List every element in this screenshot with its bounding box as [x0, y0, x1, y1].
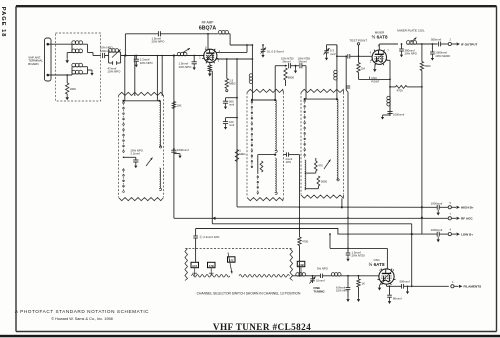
label 500mmf filament: [400, 280, 410, 284]
capacitor 56mmf A: [289, 63, 299, 68]
svg-text:470: 470: [318, 164, 323, 168]
svg-text:20% NPO: 20% NPO: [152, 40, 166, 44]
label 1000mmf: [177, 148, 189, 152]
svg-text:MIXER PLATE COIL: MIXER PLATE COIL: [397, 29, 425, 33]
capacitor 500mmf IF coupling: [439, 42, 449, 47]
capacitor 56mmf B: [300, 63, 306, 68]
decoupling coil and 1000mmf below mixer: [381, 96, 393, 119]
wire wafer3 coil top riser to grid: [327, 45, 338, 99]
svg-text:4700: 4700: [302, 240, 309, 244]
resistor 1.5 MEG screen bleeder: [225, 58, 228, 92]
label 1000mmf HIGH B+: [431, 201, 443, 205]
svg-text:10%: 10%: [286, 160, 292, 164]
neutralizing coil above V1: [218, 30, 252, 45]
capacitor 390mmf 10% NPO: [399, 43, 404, 57]
label 3-5 mmf: [330, 49, 336, 56]
variable arrow wafer1: [146, 158, 153, 167]
label 1 MEG: [239, 149, 245, 156]
cathode resistor V1 with ground: [208, 62, 212, 77]
label 10K: [177, 104, 182, 108]
label 1.5mmf 20% N750: [352, 250, 366, 257]
wafer1 lower contacts: [123, 168, 162, 192]
label 5600: [321, 180, 327, 184]
osc cathode to filament line: [386, 284, 388, 286]
feedthrough capacitor 560mmf: [223, 97, 238, 109]
feedthrough capacitor 100mmf: [223, 117, 238, 130]
wire antenna top terminal to balun: [48, 43, 72, 45]
capacitor 1000mmf 10% N2200: [430, 43, 435, 61]
svg-text:mmf: mmf: [229, 123, 234, 127]
wire riser to 1.5mmf coupling line: [125, 34, 158, 56]
pin numbers V2A: [370, 44, 390, 63]
ground antenna balun top: [65, 53, 72, 64]
label 6BQ7A: [199, 25, 217, 31]
antenna coil dashed box: [56, 33, 101, 101]
resistor 5600 inside wafer3: [305, 176, 320, 189]
svg-text:IF OUTPUT: IF OUTPUT: [461, 42, 477, 46]
label 100mmf: [229, 120, 234, 127]
capacitor mixer grid series: [348, 54, 372, 58]
wire coupling caps line: [275, 65, 287, 67]
label 4700 fine tuning: [302, 240, 309, 244]
svg-text:1000mmf: 1000mmf: [431, 228, 443, 232]
resistor 1 MEG AGC decoupling: [235, 150, 238, 162]
FILAMENTS terminal: [451, 281, 481, 289]
wire HIGH B+ bus: [237, 206, 437, 208]
wire RF AGC bus: [174, 217, 448, 219]
wire mixer heater to junction: [386, 60, 390, 116]
wafer1 right coil ladder: [160, 101, 162, 148]
node junction to coupling cap line: [124, 54, 126, 56]
wire into selector from C cap: [195, 249, 197, 263]
svg-text:1000mmf: 1000mmf: [393, 113, 404, 117]
svg-text:GL 0.5-3mmf: GL 0.5-3mmf: [267, 49, 284, 53]
wire V1 pin3 line: [216, 58, 253, 60]
label 1.5 MEG: [229, 78, 235, 85]
label 5600: [424, 64, 431, 68]
balun coil L1 bottom pair: [72, 63, 88, 74]
junction arrow heater bus crossing: [212, 217, 215, 220]
svg-text:56mmf: 56mmf: [283, 60, 291, 64]
wire balun output: [88, 53, 102, 56]
wafer2 link wire: [258, 154, 277, 174]
capacitor 1000mmf AGC bypass: [171, 148, 181, 158]
label resistor value: [70, 87, 77, 91]
trap L2 C2 parallel circuit: [108, 49, 120, 65]
svg-text:© Howard W. Sams & Co., Inc. 1: © Howard W. Sams & Co., Inc. 1958: [51, 317, 112, 321]
capacitor 80mmf osc cathode: [387, 285, 392, 304]
node plate B plus: [421, 43, 423, 45]
wafer1 input drop wires: [124, 55, 163, 101]
svg-text:1000mmf: 1000mmf: [177, 148, 189, 152]
label 2mmf 10%: [286, 157, 293, 164]
label 4700: [397, 89, 404, 93]
svg-text:TUNING: TUNING: [314, 289, 326, 293]
svg-text:1000mmf: 1000mmf: [431, 201, 443, 205]
label 10% N750 56mmf A: [281, 56, 294, 63]
mixer cathode ground: [373, 63, 376, 72]
svg-text:10mmf: 10mmf: [316, 279, 325, 283]
wafer1 bottom link wire: [123, 157, 136, 159]
RF AGC terminal: [448, 213, 473, 221]
label C1 120mmf 10% NPO: [100, 46, 114, 53]
svg-text:A7B: A7B: [209, 264, 214, 268]
pin numbers V1: [199, 47, 220, 68]
svg-text:2.2mmf: 2.2mmf: [131, 152, 141, 156]
resistor inside wafer2: [260, 161, 263, 172]
wafer3 lower coil beads: [305, 160, 306, 190]
label 6800: [288, 76, 295, 80]
svg-text:A7A: A7A: [192, 264, 197, 268]
balun coil L1 top pair: [72, 41, 88, 53]
svg-text:FILAMENTS: FILAMENTS: [464, 285, 482, 289]
resistor 10K osc grid leak: [357, 275, 360, 302]
svg-text:1M: 1M: [361, 66, 366, 70]
svg-text:6BQ7A: 6BQ7A: [199, 25, 217, 31]
switch segment box A7B: [208, 262, 216, 276]
oscillator coil line in selector: [191, 275, 289, 278]
capacitor 6.8mmf 10% NPO osc grid: [346, 275, 351, 302]
label trap 47mmf 10% NPO: [108, 66, 122, 73]
capacitor 2mmf osc coupling at wafer2: [284, 152, 300, 156]
feedthrough capacitor 1000mmf HIGH B+: [436, 205, 448, 216]
wire wafer2 right ladder riser: [274, 66, 276, 100]
svg-text:mmf: mmf: [229, 103, 234, 107]
capacitor on osc net near wafer3: [346, 86, 350, 88]
wire grid return column with components: [173, 56, 175, 219]
resistor 10K on grid return: [172, 102, 175, 109]
svg-text:5% NPO: 5% NPO: [317, 266, 329, 270]
channel selector left zigzag edge: [185, 249, 188, 281]
capacitor C1 120mmf series: [103, 53, 109, 58]
label OSC half 6AT8: [369, 258, 385, 267]
label MIXER PLATE COIL: [397, 29, 425, 33]
svg-text:5600: 5600: [424, 64, 431, 68]
svg-text:RF AGC: RF AGC: [461, 217, 474, 221]
variable arrow wafer3: [324, 160, 331, 170]
channel selector dashed box: [185, 248, 292, 250]
resistor 6800 interstage: [284, 65, 287, 86]
label 560mmf: [229, 100, 234, 107]
svg-text:½ 6AT8: ½ 6AT8: [369, 261, 385, 267]
title VHF TUNER #CL5824: [213, 322, 311, 332]
wafer3 top bar: [304, 98, 338, 100]
wire osc injection line: [359, 79, 391, 81]
svg-text:80mmf: 80mmf: [393, 296, 402, 300]
wiper arrow channel selector: [228, 253, 233, 274]
wire mixer B plus vertical to HIGH B+: [421, 87, 423, 234]
ground antenna balun bottom: [88, 70, 94, 76]
HIGH B+ terminal: [448, 202, 474, 210]
wire V1 pin2 to plate node: [216, 44, 248, 52]
svg-text:MEG: MEG: [229, 82, 235, 86]
wafer3 right coil ladder: [337, 99, 339, 181]
svg-text:100K: 100K: [70, 87, 77, 91]
wire cathode to heater bus riser: [210, 71, 213, 224]
svg-text:BOARD: BOARD: [28, 62, 38, 66]
svg-text:MEG: MEG: [239, 152, 245, 156]
svg-text:VHF TUNER #CL5824: VHF TUNER #CL5824: [213, 322, 311, 332]
label 2.2mmf 10% NPO: [140, 58, 154, 65]
resistor 4700 osc plate feed: [389, 85, 423, 88]
wire grid line with series capacitor: [336, 45, 346, 57]
svg-text:PAGE 18: PAGE 18: [0, 7, 6, 38]
svg-text:RF AMP: RF AMP: [202, 21, 214, 25]
label 5% NPO 10mmf: [316, 266, 329, 282]
label FINE TUNING: [314, 286, 326, 293]
ground between coupling caps: [294, 65, 297, 73]
pin numbers V2B: [379, 269, 395, 272]
svg-text:500mmf: 500mmf: [400, 280, 410, 284]
label GL 0.5-3mmf: [267, 49, 284, 53]
VHF antenna terminal board: [45, 38, 52, 81]
wafer2 right coil ladder: [275, 100, 277, 152]
label 6.8mmf 10% NPO: [336, 285, 349, 292]
svg-text:1K: 1K: [362, 281, 366, 285]
label 1000mmf: [393, 113, 404, 117]
label 500mmf: [431, 37, 441, 41]
ground osc cathode: [378, 283, 382, 291]
switch segment box A7C: [228, 257, 236, 263]
switch wafer 2 outline: [247, 89, 284, 200]
svg-text:mmf: mmf: [330, 52, 336, 56]
label 390mmf 10% NPO: [405, 48, 418, 55]
wire heater bus to filament drop: [212, 224, 413, 287]
svg-text:10% NPO: 10% NPO: [405, 52, 418, 56]
tube V2A mixer: [371, 50, 388, 66]
footer text PHOTOFACT notation: [15, 309, 149, 321]
tube V2B oscillator: [377, 269, 395, 285]
wire osc plate top: [330, 234, 387, 270]
wire antenna bottom terminal: [48, 74, 72, 75]
resistor antenna static drain: [65, 74, 69, 100]
label RF AMP: [202, 21, 214, 25]
wafer1 left contact ladder: [123, 101, 125, 153]
switch wafer 3 outline: [301, 89, 344, 198]
svg-text:500mmf: 500mmf: [431, 37, 441, 41]
oscillator grid coil: [331, 273, 379, 276]
label CHANNEL SELECTOR SWITCH caption: [197, 292, 301, 296]
plate trimmer GL 0.5-3mmf: [261, 44, 267, 58]
svg-text:10% NPO: 10% NPO: [179, 65, 193, 69]
capacitor C 2.2mmf osc injection: [193, 229, 198, 249]
capacitor 2.2mmf to ground: [134, 55, 139, 68]
B plus feed column wire: [236, 58, 238, 207]
fine tuning coil: [292, 273, 306, 277]
wire wafer3 left ladder riser: [305, 66, 306, 99]
label 1000mmf 10% N2200: [435, 51, 450, 58]
capacitor 10mmf 5% NPO series: [305, 274, 331, 278]
wire mixer plate riser: [379, 44, 398, 50]
wafer2 lower contacts: [257, 158, 277, 196]
svg-text:6800: 6800: [288, 76, 295, 80]
resistor 1M mixer grid: [357, 56, 360, 79]
interstage coil V1 plate to wafer2: [249, 44, 253, 100]
resistor 470 inside wafer3: [305, 158, 318, 173]
label 10% N750 56mmf B: [298, 56, 311, 63]
svg-text:10% N2200: 10% N2200: [435, 54, 450, 58]
label 1M: [361, 66, 366, 70]
ground stub after 500mmf: [406, 286, 409, 295]
trimmer capacitor 3-5mmf mixer grid: [324, 45, 330, 61]
channel selector right zigzag edge: [290, 249, 293, 281]
label MIXER half 6AT8: [372, 30, 388, 39]
page number text PAGE 18 (rotated): [0, 7, 6, 38]
svg-text:TEST POINT: TEST POINT: [349, 38, 367, 42]
capacitor 1.5mmf 20% N750 osc plate: [346, 248, 351, 262]
svg-text:10% NPO: 10% NPO: [140, 61, 154, 65]
label 1.5mmf 20% NPO: [152, 36, 166, 43]
tube V1 RF amplifier 6BQ7A: [202, 49, 218, 63]
svg-text:10% NPO: 10% NPO: [108, 70, 122, 74]
wafer2 top bar: [251, 99, 277, 101]
label C 2.2mmf 10%: [200, 234, 220, 239]
svg-text:½ 6AT8: ½ 6AT8: [372, 34, 388, 40]
TEST POINT terminal: [349, 38, 367, 57]
label 80mmf: [393, 296, 402, 300]
label OSC POINT: [370, 76, 380, 83]
resistor 5600 plate load: [420, 44, 423, 87]
RF grid tuning coil with arrow: [173, 48, 205, 56]
capacitor 2.2mmf 20% NPO in wafer1: [133, 157, 138, 168]
capacitor 1.5mmf 20% NPO coupling: [158, 31, 218, 36]
svg-text:4700: 4700: [397, 89, 404, 93]
svg-text:5600: 5600: [321, 180, 327, 184]
IF OUTPUT terminal: [448, 39, 477, 47]
label VHF ANT. TERMINAL BOARD: [28, 55, 43, 66]
capacitor 1.5mmf 10% NPO grid: [192, 55, 197, 70]
svg-text:A PHOTOFACT STANDARD NOTATION: A PHOTOFACT STANDARD NOTATION SCHEMATIC: [15, 309, 149, 314]
wire main antenna line to RF grid: [121, 55, 195, 57]
svg-text:56mmf: 56mmf: [299, 60, 307, 64]
mixer plate coil with arrow: [406, 38, 437, 45]
switch segment box A7A: [191, 262, 199, 276]
feedthrough capacitor 1000mmf LOW B+: [436, 232, 448, 243]
svg-text:HIGH B+: HIGH B+: [461, 206, 474, 210]
wire wafer3 bottom to HIGH B+ bus: [341, 199, 343, 209]
variable arrow trap: [112, 50, 121, 58]
svg-text:CHANNEL SELECTOR SWITCH SHOWN: CHANNEL SELECTOR SWITCH SHOWN IN CHANNEL…: [197, 292, 301, 296]
switch wafer 1 outline: [119, 92, 164, 200]
capacitor 500mmf filament: [387, 284, 449, 289]
svg-text:10% NPO: 10% NPO: [336, 289, 349, 293]
wafer1 top bar: [122, 100, 160, 102]
label 1000mmf LOW B+: [431, 228, 443, 232]
node vertical to osc plate net: [345, 55, 347, 57]
LOW B+ terminal: [448, 229, 473, 237]
switch segment box A3B: [297, 261, 305, 276]
wire LOW B+ line: [196, 229, 438, 235]
wafer2 left contact ladder: [251, 100, 253, 168]
svg-text:Ⓒ 2.2mmf 10%: Ⓒ 2.2mmf 10%: [200, 234, 220, 239]
svg-text:LOW B+: LOW B+: [461, 233, 473, 237]
label 1.5mmf 10% NPO: [179, 62, 193, 69]
wire V1 plate top riser: [207, 33, 209, 50]
fine tuning variable capacitor: [310, 275, 316, 284]
svg-text:POINT: POINT: [371, 79, 380, 83]
wire osc coupling vertical from wafer2: [299, 155, 301, 229]
svg-text:20% N750: 20% N750: [352, 254, 366, 258]
svg-text:10K: 10K: [177, 104, 182, 108]
wire osc plate net vertical: [346, 56, 349, 248]
page bottom edge black bar: [0, 335, 500, 338]
node osc net bus junctions: [329, 233, 331, 235]
wafer3 left contact ladder: [304, 99, 306, 158]
label 20% NPO 2.2mmf: [131, 148, 144, 155]
label 470: [318, 164, 323, 168]
resistor 4700 fine tuning feed: [298, 228, 301, 276]
label 1K osc: [362, 281, 366, 285]
